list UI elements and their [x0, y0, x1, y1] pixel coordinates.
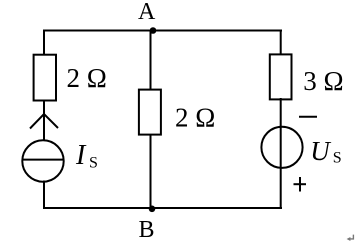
wire middle branch upper [150, 31, 152, 91]
current source diameter line [23, 159, 63, 161]
wire left branch upper [43, 30, 45, 56]
resistor R1 [34, 55, 56, 101]
paragraph return mark [350, 235, 354, 239]
svg-text:3 Ω: 3 Ω [303, 66, 343, 96]
resistor R3 [270, 54, 292, 99]
svg-text:S: S [89, 155, 98, 172]
voltage source polarity minus [299, 116, 317, 118]
wire bottom rail (node B row) [43, 207, 282, 209]
wire right branch upper [280, 30, 282, 56]
voltage source US circle [261, 127, 302, 168]
voltage source polarity plus [294, 183, 307, 185]
svg-text:2 Ω: 2 Ω [67, 63, 107, 93]
node A junction dot [150, 27, 157, 34]
current source IS circle [22, 140, 63, 181]
resistor R2 [139, 90, 161, 135]
node B junction dot [149, 206, 156, 213]
wire middle branch lower [150, 134, 152, 209]
svg-text:I: I [75, 140, 87, 171]
svg-text:U: U [310, 136, 331, 166]
svg-text:S: S [333, 150, 342, 167]
svg-text:2 Ω: 2 Ω [175, 103, 215, 133]
wire left branch lower [43, 181, 45, 210]
wire right branch through source [280, 98, 282, 209]
current source arrow [30, 114, 58, 129]
svg-text:B: B [139, 217, 155, 241]
wire top rail (node A row) [43, 30, 282, 32]
wire left branch middle [43, 100, 45, 141]
svg-text:A: A [138, 0, 156, 25]
